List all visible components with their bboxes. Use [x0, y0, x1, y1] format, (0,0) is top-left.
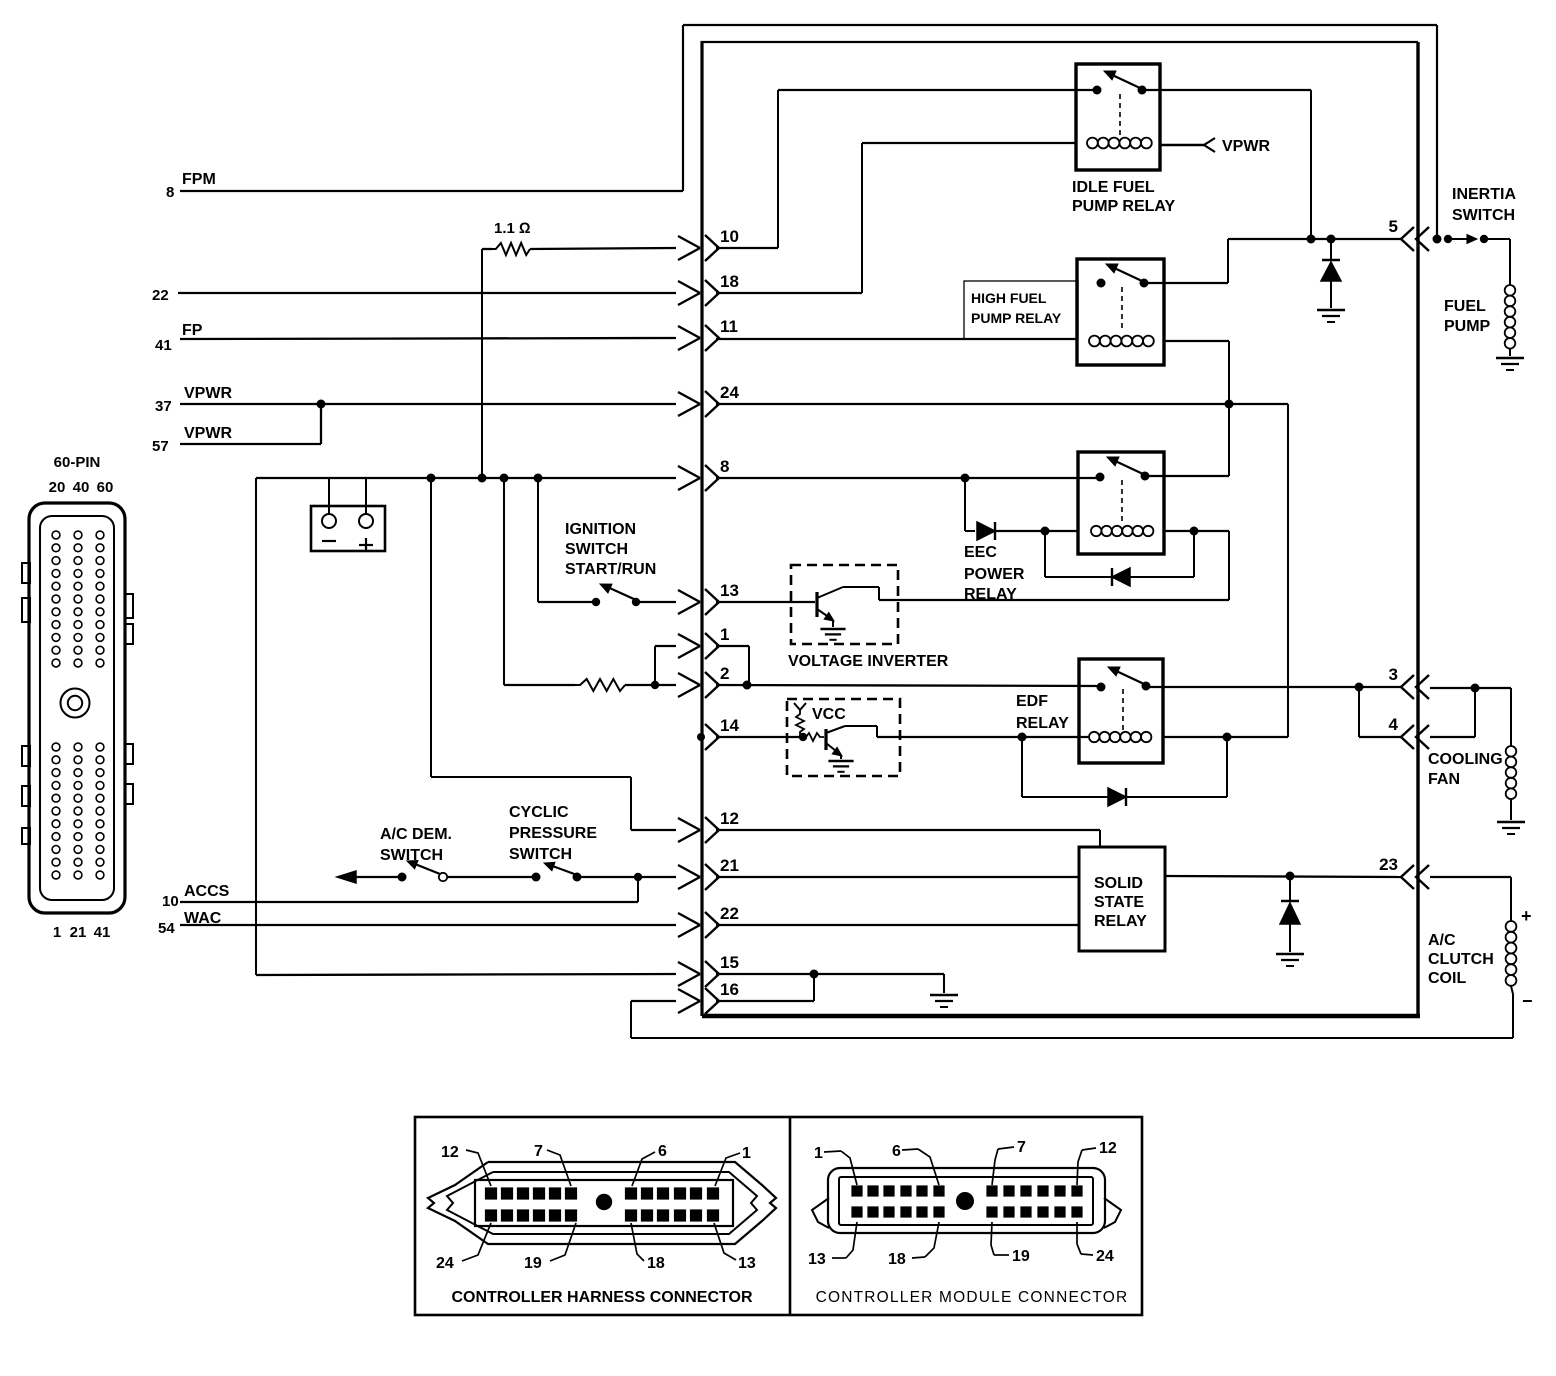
svg-text:60-PIN: 60-PIN: [54, 454, 101, 471]
svg-text:VPWR: VPWR: [1222, 138, 1270, 155]
svg-text:23: 23: [1379, 855, 1398, 874]
svg-text:24: 24: [1096, 1248, 1114, 1265]
svg-text:5: 5: [1389, 217, 1398, 236]
svg-text:16: 16: [720, 980, 739, 999]
svg-text:7: 7: [1017, 1139, 1026, 1156]
svg-text:60: 60: [97, 479, 114, 496]
svg-text:SWITCH: SWITCH: [380, 847, 443, 864]
svg-text:7: 7: [534, 1143, 543, 1160]
svg-text:PUMP RELAY: PUMP RELAY: [1072, 198, 1175, 215]
svg-text:12: 12: [441, 1144, 459, 1161]
svg-text:6: 6: [892, 1143, 901, 1160]
svg-text:15: 15: [720, 953, 739, 972]
svg-text:1: 1: [742, 1145, 751, 1162]
svg-text:COOLING: COOLING: [1428, 751, 1503, 768]
svg-text:37: 37: [155, 398, 172, 415]
svg-text:3: 3: [1389, 665, 1398, 684]
svg-text:1.1 Ω: 1.1 Ω: [494, 220, 531, 237]
svg-text:IGNITION: IGNITION: [565, 521, 636, 538]
svg-text:RELAY: RELAY: [1016, 715, 1069, 732]
svg-text:A/C DEM.: A/C DEM.: [380, 826, 452, 843]
svg-text:FAN: FAN: [1428, 771, 1460, 788]
svg-text:SWITCH: SWITCH: [509, 846, 572, 863]
svg-text:ACCS: ACCS: [184, 883, 230, 900]
svg-text:A/C: A/C: [1428, 932, 1456, 949]
svg-text:VPWR: VPWR: [184, 425, 232, 442]
svg-text:SWITCH: SWITCH: [565, 541, 628, 558]
svg-text:40: 40: [73, 479, 90, 496]
svg-text:VCC: VCC: [812, 706, 846, 723]
svg-text:1: 1: [53, 924, 61, 941]
svg-text:+: +: [1521, 906, 1532, 926]
svg-text:6: 6: [658, 1143, 667, 1160]
svg-text:CONTROLLER HARNESS CONNECTOR: CONTROLLER HARNESS CONNECTOR: [451, 1289, 752, 1306]
svg-text:22: 22: [152, 287, 169, 304]
svg-text:19: 19: [1012, 1248, 1030, 1265]
svg-text:CONTROLLER MODULE CONNECTOR: CONTROLLER MODULE CONNECTOR: [816, 1289, 1129, 1306]
svg-text:CYCLIC: CYCLIC: [509, 804, 569, 821]
svg-text:CLUTCH: CLUTCH: [1428, 951, 1494, 968]
svg-text:HIGH FUEL: HIGH FUEL: [971, 290, 1047, 306]
svg-text:41: 41: [94, 924, 111, 941]
svg-text:EDF: EDF: [1016, 693, 1048, 710]
svg-text:FPM: FPM: [182, 171, 216, 188]
svg-text:SOLID: SOLID: [1094, 875, 1143, 892]
svg-text:20: 20: [49, 479, 66, 496]
svg-text:18: 18: [720, 272, 739, 291]
svg-text:INERTIA: INERTIA: [1452, 186, 1516, 203]
svg-text:10: 10: [720, 227, 739, 246]
svg-text:8: 8: [720, 457, 729, 476]
svg-text:STATE: STATE: [1094, 894, 1144, 911]
svg-text:21: 21: [720, 856, 739, 875]
svg-text:PUMP RELAY: PUMP RELAY: [971, 310, 1062, 326]
svg-text:19: 19: [524, 1255, 542, 1272]
svg-text:4: 4: [1389, 715, 1399, 734]
svg-text:18: 18: [647, 1255, 665, 1272]
svg-text:1: 1: [720, 625, 729, 644]
svg-text:13: 13: [738, 1255, 756, 1272]
svg-text:FUEL: FUEL: [1444, 298, 1486, 315]
svg-text:START/RUN: START/RUN: [565, 561, 656, 578]
svg-text:VOLTAGE INVERTER: VOLTAGE INVERTER: [788, 653, 949, 670]
svg-text:PUMP: PUMP: [1444, 318, 1491, 335]
svg-text:12: 12: [720, 809, 739, 828]
svg-text:VPWR: VPWR: [184, 385, 232, 402]
svg-text:10: 10: [162, 893, 179, 910]
svg-text:14: 14: [720, 716, 739, 735]
svg-text:2: 2: [720, 664, 729, 683]
svg-text:41: 41: [155, 337, 172, 354]
svg-text:COIL: COIL: [1428, 970, 1466, 987]
svg-text:−: −: [1522, 991, 1533, 1011]
svg-text:SWITCH: SWITCH: [1452, 207, 1515, 224]
svg-text:13: 13: [720, 581, 739, 600]
svg-text:FP: FP: [182, 322, 203, 339]
svg-text:57: 57: [152, 438, 169, 455]
svg-text:12: 12: [1099, 1140, 1117, 1157]
svg-text:54: 54: [158, 920, 175, 937]
svg-text:1: 1: [814, 1145, 823, 1162]
svg-text:11: 11: [720, 317, 738, 336]
svg-text:13: 13: [808, 1251, 826, 1268]
svg-text:22: 22: [720, 904, 739, 923]
svg-text:RELAY: RELAY: [1094, 913, 1147, 930]
svg-text:EEC: EEC: [964, 544, 997, 561]
svg-text:POWER: POWER: [964, 566, 1025, 583]
svg-text:8: 8: [166, 184, 174, 201]
svg-text:21: 21: [70, 924, 87, 941]
svg-text:PRESSURE: PRESSURE: [509, 825, 597, 842]
svg-text:18: 18: [888, 1251, 906, 1268]
svg-text:24: 24: [436, 1255, 454, 1272]
svg-text:IDLE FUEL: IDLE FUEL: [1072, 179, 1155, 196]
svg-text:24: 24: [720, 383, 739, 402]
